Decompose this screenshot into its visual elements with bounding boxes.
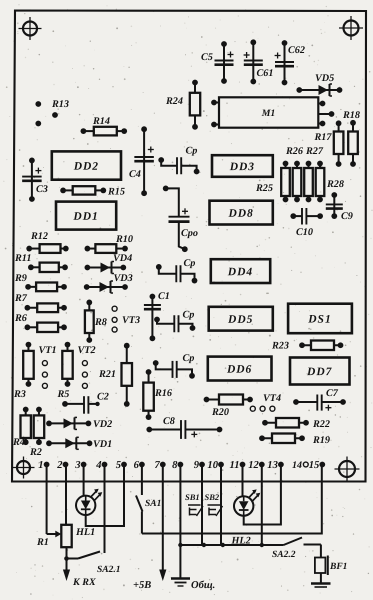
IC DD2 <box>52 151 121 179</box>
svg-text:HL1: HL1 <box>75 527 95 538</box>
resistor R24 <box>165 80 200 130</box>
svg-text:R9: R9 <box>14 273 27 284</box>
buzzer BF1 <box>311 545 347 588</box>
wire ground bus <box>178 543 283 547</box>
capacitor Cpo <box>163 186 198 253</box>
svg-text:R2: R2 <box>29 447 42 458</box>
mounting hole bottom-right <box>335 457 360 482</box>
resistor R9 <box>14 273 67 291</box>
capacitor C4 <box>129 126 154 196</box>
svg-text:R21: R21 <box>98 369 116 380</box>
svg-text:C8: C8 <box>163 416 175 427</box>
svg-text:SB1: SB1 <box>185 492 200 502</box>
resistor R20 <box>204 395 253 419</box>
svg-text:VD1: VD1 <box>93 439 112 450</box>
transistor VT3 pads <box>112 306 140 332</box>
svg-text:C5: C5 <box>201 52 213 63</box>
push button SB1 <box>185 492 203 516</box>
capacitor C3 <box>22 158 48 202</box>
svg-text:R4: R4 <box>12 437 25 448</box>
capacitor C1 <box>144 291 170 341</box>
resistor R16 <box>143 369 173 420</box>
capacitor C5 <box>201 41 234 84</box>
diode VD5 <box>296 73 342 96</box>
wire pin12 down <box>261 466 263 545</box>
svg-text:DD2: DD2 <box>73 161 99 173</box>
capacitor Cp (2) <box>156 258 198 283</box>
svg-text:1: 1 <box>38 460 43 471</box>
diode VD4 <box>85 253 133 273</box>
svg-text:R28: R28 <box>326 179 344 190</box>
svg-text:VT4: VT4 <box>263 393 281 404</box>
svg-text:R18: R18 <box>342 110 360 121</box>
svg-text:R7: R7 <box>14 293 28 304</box>
capacitor C62 <box>275 40 305 85</box>
push button SB2 <box>204 492 222 516</box>
wire HL1 to pin5 <box>86 466 124 526</box>
resistor R19 <box>259 434 330 447</box>
svg-text:+5В: +5В <box>133 580 151 591</box>
svg-text:R16: R16 <box>154 388 173 399</box>
resistor R21 <box>98 343 132 407</box>
resistor R6 <box>14 313 67 332</box>
capacitor C8 <box>146 416 222 439</box>
svg-text:DD8: DD8 <box>227 208 253 220</box>
resistor R23 <box>271 340 343 351</box>
svg-text:R3: R3 <box>13 389 26 400</box>
svg-text:R22: R22 <box>312 419 330 430</box>
svg-text:3: 3 <box>74 460 81 471</box>
diode VD3 <box>84 273 133 293</box>
svg-text:R24: R24 <box>165 96 183 107</box>
resistor R8 <box>85 300 107 343</box>
IC DD3 <box>212 155 273 177</box>
svg-text:R13: R13 <box>51 99 69 110</box>
svg-text:SA2.1: SA2.1 <box>97 565 121 575</box>
svg-text:C10: C10 <box>296 227 313 238</box>
capacitor C10 <box>290 208 323 238</box>
svg-text:Сро: Сро <box>181 228 198 239</box>
svg-text:DD5: DD5 <box>227 314 253 326</box>
svg-text:R8: R8 <box>94 317 107 328</box>
svg-text:SB2: SB2 <box>204 492 219 502</box>
resistor R22 <box>262 418 330 430</box>
resistor R18 <box>348 120 358 167</box>
svg-text:R19: R19 <box>312 435 330 446</box>
resistor R17 <box>313 120 343 167</box>
wire pin8 to ground <box>171 466 215 591</box>
svg-text:5: 5 <box>116 460 122 471</box>
svg-text:C2: C2 <box>97 392 109 403</box>
svg-text:R6: R6 <box>14 313 28 324</box>
switch SA2.1 <box>67 466 121 575</box>
svg-text:R25: R25 <box>255 183 273 194</box>
IC DD4 <box>211 259 270 283</box>
svg-text:R14: R14 <box>92 116 110 127</box>
svg-text:C4: C4 <box>129 169 141 180</box>
svg-text:11: 11 <box>229 460 239 471</box>
wire bus SA1 to pin15 <box>142 466 322 534</box>
module M1 <box>211 97 334 127</box>
svg-text:VT1: VT1 <box>38 345 56 356</box>
svg-text:DD1: DD1 <box>72 211 98 223</box>
svg-text:C7: C7 <box>326 388 339 399</box>
wire pin9 down <box>201 466 203 545</box>
svg-text:C61: C61 <box>256 68 273 79</box>
resistor R3 <box>13 342 34 400</box>
svg-text:4: 4 <box>95 460 101 471</box>
PCB board outline <box>12 11 366 482</box>
svg-text:Ср: Ср <box>185 146 197 157</box>
svg-text:R10: R10 <box>115 234 133 245</box>
svg-text:DD6: DD6 <box>226 364 252 376</box>
resistor R12 <box>26 231 68 253</box>
switch SA2.2 <box>272 538 321 561</box>
IC DD8 <box>210 201 273 225</box>
svg-text:14: 14 <box>292 460 302 471</box>
IC DD7 <box>290 358 350 385</box>
wire HL2 to pin13 <box>244 466 281 525</box>
svg-text:10: 10 <box>207 460 218 471</box>
svg-text:R27: R27 <box>305 146 324 157</box>
svg-text:DD4: DD4 <box>227 266 253 278</box>
svg-text:VT3: VT3 <box>122 315 140 326</box>
svg-text:R5: R5 <box>56 389 69 400</box>
svg-text:C3: C3 <box>36 184 48 195</box>
resistor R2 <box>29 407 44 458</box>
svg-text:DS1: DS1 <box>307 314 331 326</box>
svg-text:DD7: DD7 <box>306 366 333 378</box>
svg-text:VD3: VD3 <box>113 273 132 284</box>
svg-text:R20: R20 <box>211 407 229 418</box>
svg-text:9: 9 <box>194 460 200 471</box>
svg-text:R17: R17 <box>313 132 332 143</box>
svg-text:7: 7 <box>154 460 160 471</box>
transistor VT1 pads <box>38 345 56 388</box>
wire pin1 to R1 wiper <box>47 466 62 537</box>
resistor R26 <box>285 146 304 202</box>
resistor R15 <box>60 186 125 197</box>
potentiometer R1 <box>36 466 72 561</box>
capacitor C9 <box>326 192 353 222</box>
svg-text:SA1: SA1 <box>145 499 161 509</box>
LED HL1 <box>75 489 102 538</box>
IC DD5 <box>209 307 273 331</box>
svg-text:C9: C9 <box>341 211 353 222</box>
IC DD1 <box>56 202 116 230</box>
svg-text:15: 15 <box>309 460 320 471</box>
svg-text:R23: R23 <box>271 340 289 351</box>
svg-text:R1: R1 <box>36 537 49 548</box>
capacitor C61 <box>244 39 274 84</box>
capacitor C2 <box>62 392 109 414</box>
capacitor Cp (1) <box>158 146 199 175</box>
IC DD6 <box>208 357 272 381</box>
wire pin10 down <box>220 466 222 545</box>
mounting hole bottom-left <box>13 457 35 479</box>
wire pin3 to HL1 <box>83 466 85 496</box>
svg-text:Ср: Ср <box>182 310 194 321</box>
arrow К RX <box>63 559 96 589</box>
svg-text:Общ.: Общ. <box>191 580 215 591</box>
resistor R11 <box>14 253 68 272</box>
capacitor Cp (4) <box>153 353 195 379</box>
svg-text:R12: R12 <box>30 231 48 242</box>
svg-text:6: 6 <box>134 460 140 471</box>
switch SA1 <box>136 466 161 534</box>
diode VD2 <box>46 417 112 430</box>
transistor VT2 pads <box>77 345 95 388</box>
resistor R5 <box>56 342 72 400</box>
svg-text:R26: R26 <box>285 146 304 157</box>
svg-text:12: 12 <box>248 460 259 471</box>
svg-text:C62: C62 <box>288 45 305 56</box>
svg-text:R11: R11 <box>14 253 31 264</box>
svg-text:VD2: VD2 <box>93 419 112 430</box>
svg-text:SA2.2: SA2.2 <box>272 550 296 560</box>
resistor R28 <box>316 161 344 203</box>
resistor R10 <box>85 234 134 253</box>
svg-text:C1: C1 <box>158 291 170 302</box>
mounting hole top-right <box>339 16 363 40</box>
svg-text:VD4: VD4 <box>113 253 132 264</box>
svg-text:HL2: HL2 <box>230 535 250 546</box>
resistor R13 pads <box>35 99 69 126</box>
svg-text:R15: R15 <box>107 186 125 197</box>
mounting hole top-left <box>19 17 42 40</box>
svg-text:8: 8 <box>172 460 178 471</box>
svg-text:VD5: VD5 <box>315 73 334 84</box>
capacitor Cp (3) <box>154 310 195 333</box>
svg-text:VT2: VT2 <box>77 345 95 356</box>
IC DS1 <box>288 304 352 334</box>
resistor R27 <box>304 146 324 202</box>
svg-text:M1: M1 <box>261 108 276 119</box>
diode VD1 <box>46 437 112 450</box>
svg-text:DD3: DD3 <box>229 161 255 173</box>
resistor R4 <box>12 407 31 448</box>
svg-text:13: 13 <box>267 460 278 471</box>
resistor R25 <box>255 161 290 203</box>
capacitor C7 <box>293 388 346 411</box>
pin row 1-15 <box>38 460 325 471</box>
svg-text:Ср: Ср <box>182 353 194 364</box>
resistor R7 <box>14 293 67 312</box>
svg-text:К RX: К RX <box>72 577 96 588</box>
svg-text:BF1: BF1 <box>329 562 347 572</box>
svg-text:2: 2 <box>56 460 63 471</box>
svg-text:Ср: Ср <box>183 258 195 269</box>
LED HL2 <box>230 489 260 546</box>
transistor VT4 pads <box>250 393 281 411</box>
wire pin11 to HL2 <box>242 466 244 496</box>
wire pin7 to +5V <box>133 466 166 591</box>
resistor R14 <box>81 116 128 135</box>
